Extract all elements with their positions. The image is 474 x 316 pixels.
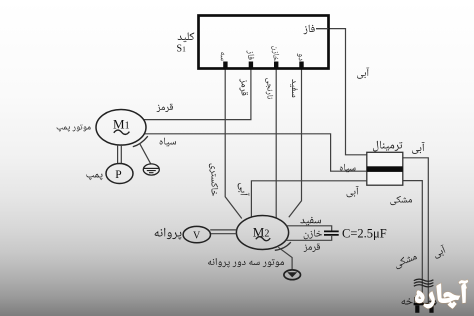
rotated label abi (blue) on blue wire to M2 bbox=[238, 183, 250, 196]
capacitor C plates bbox=[324, 231, 339, 235]
label meshki (black) below terminal bbox=[390, 196, 412, 205]
label faz (phase) + lead bbox=[303, 25, 314, 35]
motor M2 (three-speed fan motor) bbox=[236, 216, 288, 250]
M1 to pump double line bbox=[118, 144, 122, 164]
label abi (blue) lower-left of terminal bbox=[347, 186, 359, 197]
plug prongs bbox=[415, 305, 419, 313]
switch terminal tiny labels (rotated) bbox=[221, 52, 225, 60]
svg-text:C=2.5μF: C=2.5μF bbox=[342, 226, 387, 240]
label abi (blue) right of terminal bbox=[412, 142, 425, 154]
label terminal bbox=[373, 141, 402, 152]
V to M2 double line bbox=[210, 230, 236, 234]
label siah (black) at terminal bbox=[340, 164, 356, 173]
label pomp (pump) bbox=[86, 173, 102, 180]
wire blue: terminal block to plug bbox=[403, 158, 429, 303]
rotated wire color labels below switch bbox=[239, 79, 248, 96]
pump P bbox=[106, 164, 133, 184]
ground symbol below M2 bbox=[284, 270, 301, 280]
wire black: terminal block to plug bbox=[403, 181, 423, 303]
rotated label khakestari (gray) on wire A bbox=[209, 164, 218, 196]
label motor se dor parvane bbox=[208, 258, 284, 268]
label parvane (fan) bbox=[155, 228, 182, 240]
label kelid (switch) bbox=[178, 32, 195, 42]
M2 chassis arc bbox=[275, 242, 291, 250]
wire blue: terminal block to M2 bbox=[251, 181, 366, 218]
label qermez (red) on M1 wire bbox=[157, 104, 174, 113]
wire C: switch terminal 3 to M2 bbox=[275, 66, 277, 218]
terminal block bbox=[367, 152, 403, 185]
svg-text:V: V bbox=[193, 231, 201, 242]
label qermez (red) at M2 bbox=[304, 243, 321, 252]
cord break squiggle bbox=[414, 279, 434, 287]
svg-text:S1: S1 bbox=[177, 44, 187, 55]
M2 ground wire bbox=[278, 247, 292, 270]
label abi (blue) near plug, rotated bbox=[432, 244, 447, 259]
label do shakhe (plug) bbox=[401, 297, 436, 307]
wire phase: switch to terminal block (blue) bbox=[316, 29, 367, 155]
watermark achareh logo bbox=[416, 281, 468, 308]
M1 chassis arc bbox=[133, 136, 148, 147]
M1 ground wire bbox=[140, 143, 151, 164]
label meshki (black) near plug, rotated bbox=[394, 252, 419, 269]
wire D: switch terminal 4 to M2 bbox=[289, 66, 302, 217]
switch terminal stubs bbox=[223, 62, 303, 69]
switch S1 box bbox=[199, 16, 329, 69]
wire black: motor M1 to terminal block bbox=[144, 134, 366, 171]
plug body bbox=[414, 303, 436, 305]
motor M1 bbox=[96, 110, 146, 146]
label motor pomp (pump motor) bbox=[57, 124, 91, 131]
ground symbol near pump bbox=[143, 164, 159, 175]
fan V bbox=[183, 226, 210, 242]
wire A: switch terminal 1 to M2 (gray wire) bbox=[225, 66, 242, 219]
capacitor wires bbox=[286, 226, 332, 241]
wire red: switch terminal 2 to motor M1 bbox=[144, 66, 251, 120]
label khazen (capacitor) bbox=[304, 229, 322, 239]
label sefid (white) bbox=[300, 217, 321, 226]
label abi (blue) near switch right bbox=[357, 68, 369, 79]
label siah (black) on M1 wire bbox=[160, 137, 176, 146]
svg-text:P: P bbox=[115, 169, 121, 181]
